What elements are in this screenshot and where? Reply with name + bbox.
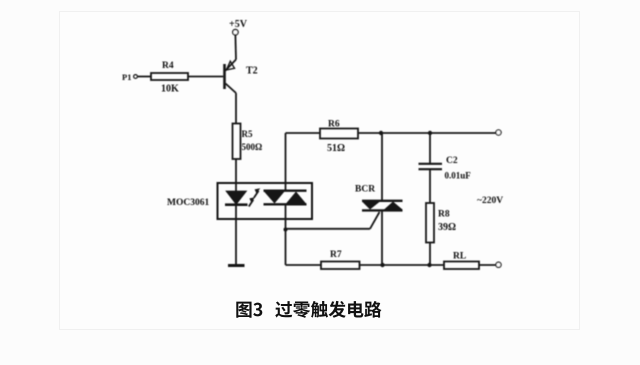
svg-text:10K: 10K	[161, 84, 179, 95]
svg-text:R7: R7	[330, 250, 342, 260]
svg-text:~220V: ~220V	[477, 196, 503, 206]
svg-text:MOC3061: MOC3061	[167, 198, 209, 208]
svg-text:+5V: +5V	[229, 19, 248, 30]
svg-text:500Ω: 500Ω	[242, 142, 263, 152]
svg-text:51Ω: 51Ω	[327, 143, 345, 154]
svg-text:T2: T2	[246, 66, 258, 77]
svg-text:0.01uF: 0.01uF	[445, 171, 472, 181]
svg-text:RL: RL	[453, 252, 466, 262]
svg-text:BCR: BCR	[355, 185, 375, 195]
svg-text:R8: R8	[438, 210, 450, 220]
svg-text:39Ω: 39Ω	[438, 222, 456, 233]
svg-text:R5: R5	[242, 129, 253, 139]
svg-text:P1: P1	[122, 72, 131, 82]
svg-text:R4: R4	[162, 61, 174, 71]
svg-text:R6: R6	[328, 120, 340, 130]
svg-text:C2: C2	[446, 156, 458, 166]
